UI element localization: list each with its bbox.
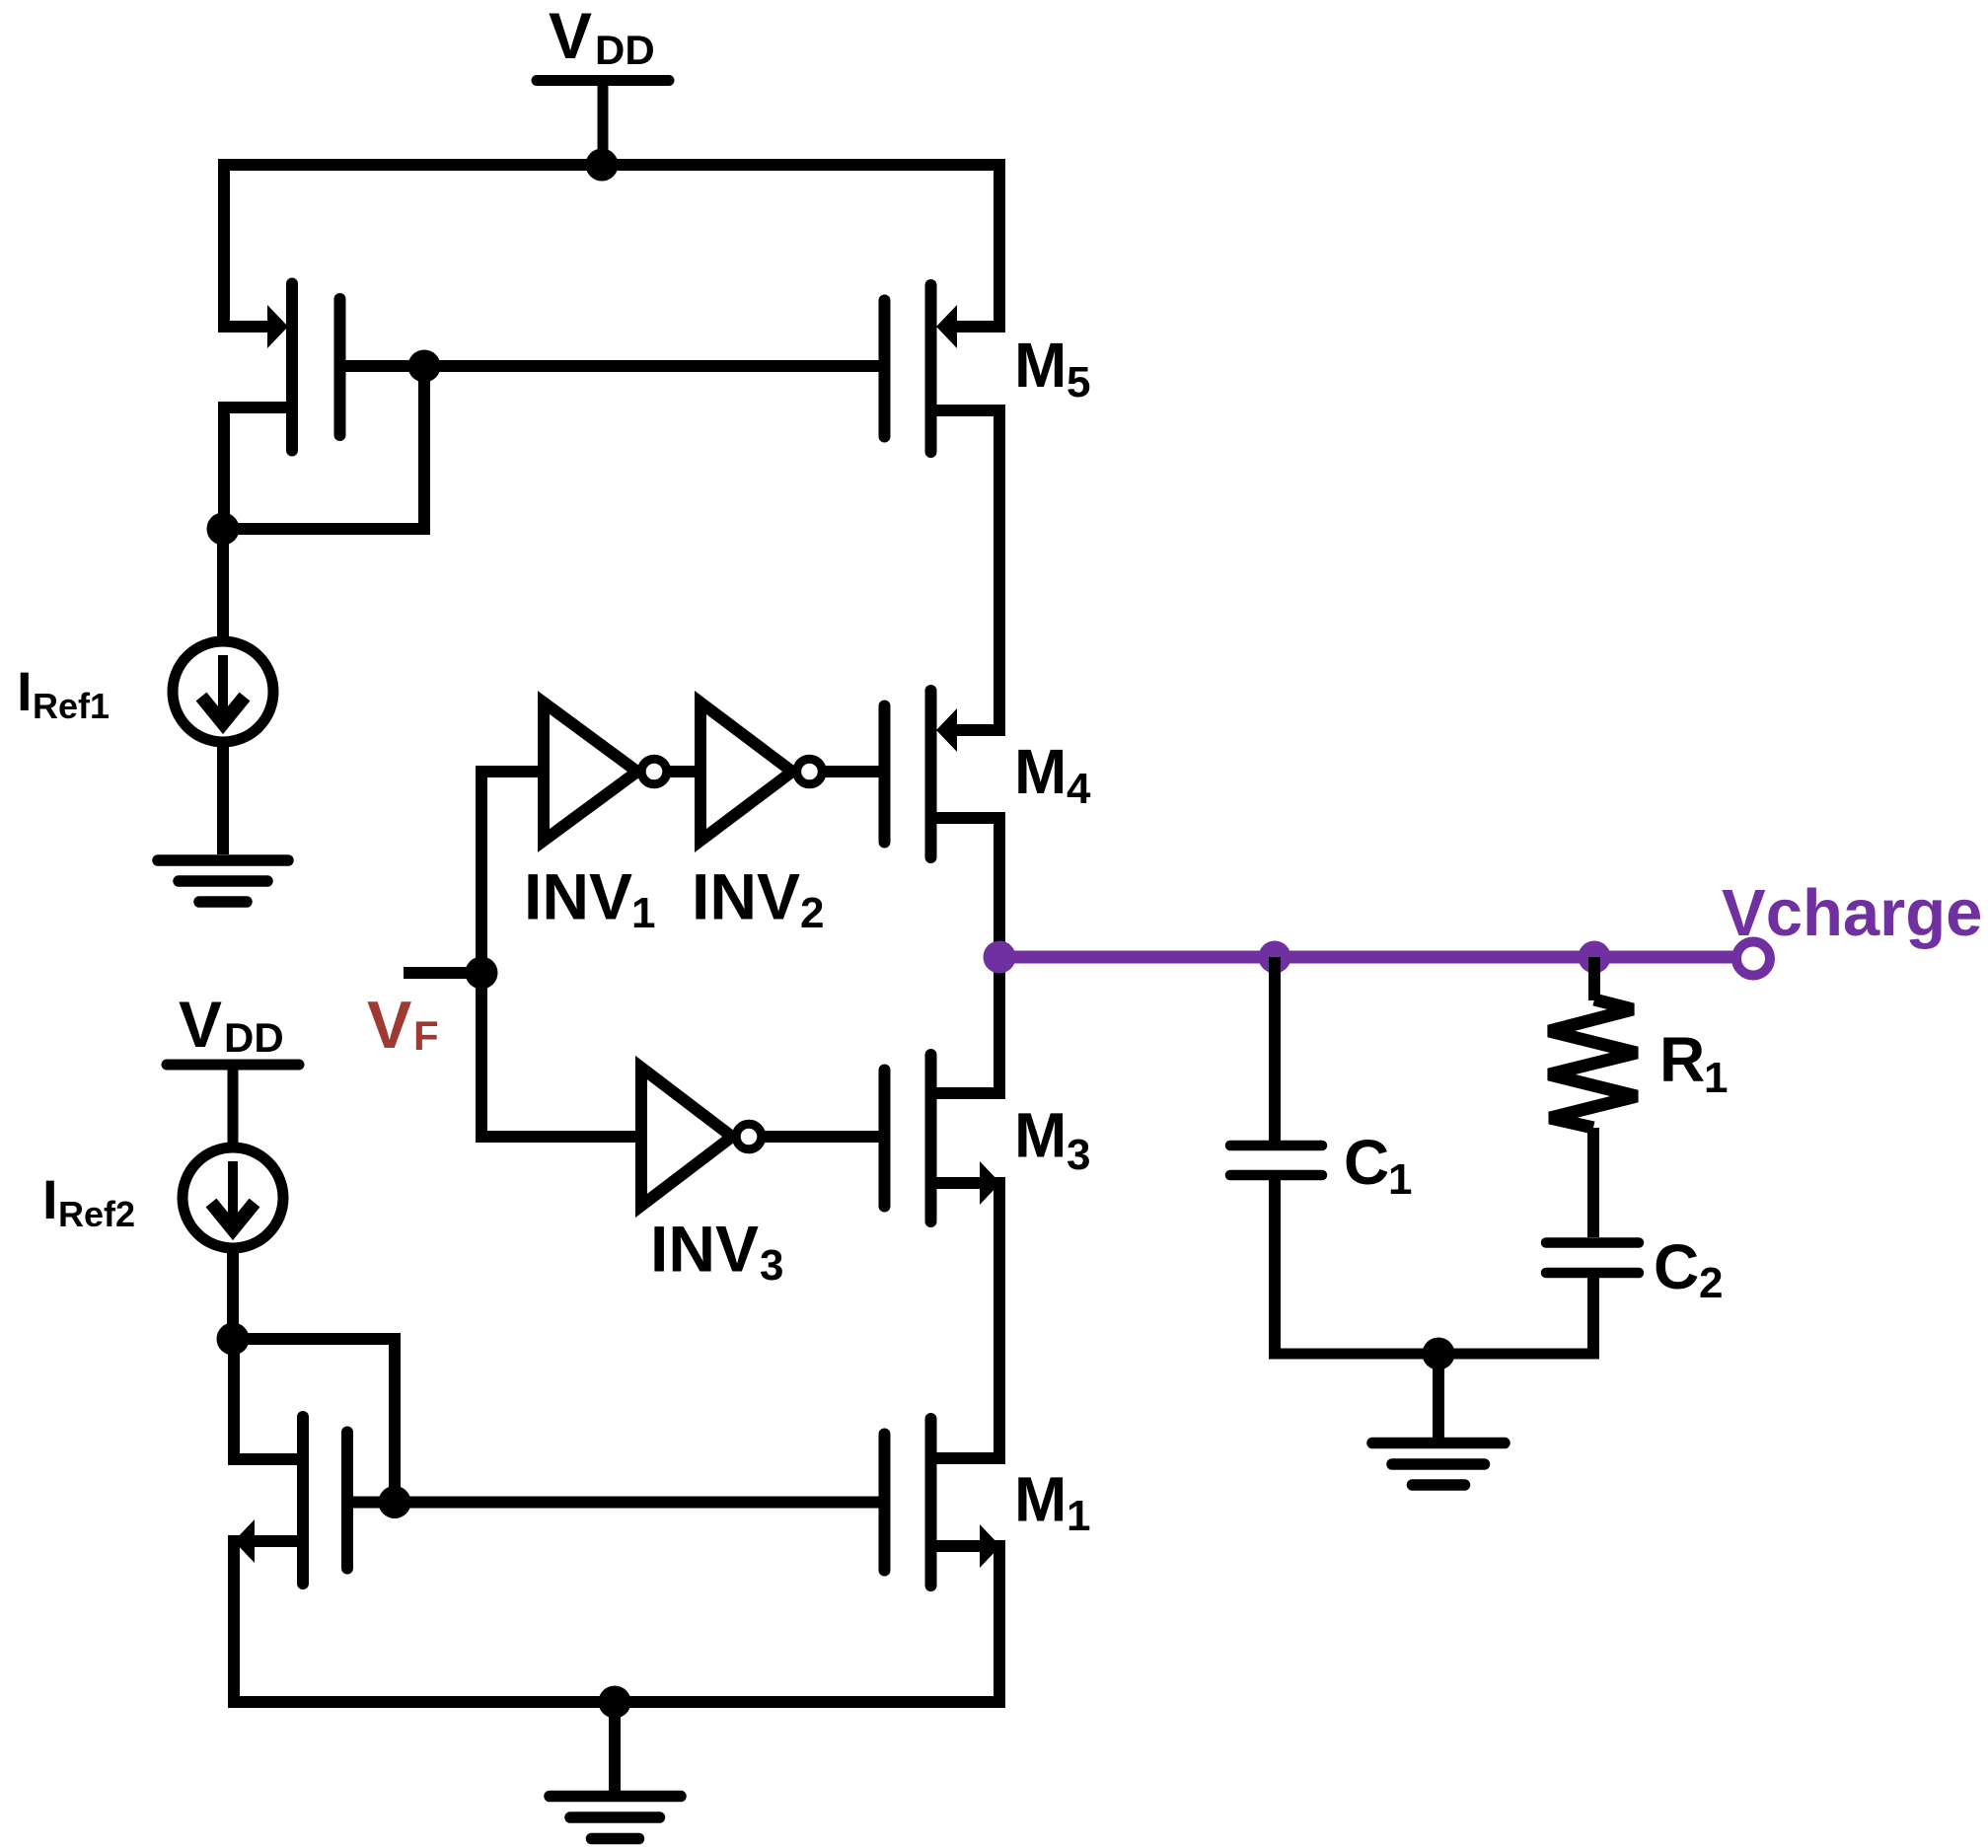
wire INV1 out to INV2 in	[666, 766, 700, 777]
wire VF stub	[404, 967, 481, 979]
wire gate of left PMOS to M5 gate	[345, 360, 879, 372]
wire IRef2 to node	[227, 1248, 239, 1339]
inverter INV3	[641, 1068, 732, 1206]
svg-text:1: 1	[1388, 1155, 1412, 1204]
wire C1/C2 bottom	[1269, 1349, 1599, 1360]
svg-text:4: 4	[1067, 765, 1091, 813]
node gate tie (bottom)	[379, 1486, 411, 1518]
svg-text:1: 1	[1067, 1492, 1090, 1540]
svg-text:Vcharge: Vcharge	[1722, 876, 1982, 950]
svg-text:C: C	[1344, 1127, 1389, 1198]
wire rail to ground	[609, 1702, 621, 1791]
ground (main, bottom center)	[550, 1797, 681, 1839]
label VDD (lower-left)	[179, 988, 284, 1061]
svg-text:V: V	[367, 988, 411, 1063]
svg-text:F: F	[413, 1012, 439, 1059]
label M5	[1014, 330, 1090, 407]
transistor M4 (PMOS)	[885, 691, 931, 857]
label VDD (top)	[549, 0, 655, 73]
svg-text:5: 5	[1067, 358, 1090, 407]
wire INV2 out to M4 gate	[822, 766, 879, 777]
label M3	[1014, 1100, 1090, 1180]
wire Vcharge net (purple)	[999, 951, 1736, 964]
label VF	[367, 988, 439, 1063]
svg-text:3: 3	[760, 1241, 783, 1290]
svg-text:C: C	[1654, 1231, 1699, 1302]
label M1	[1014, 1464, 1090, 1541]
transistor M1 (NMOS)	[885, 1419, 931, 1586]
svg-text:2: 2	[1699, 1259, 1723, 1307]
node top rail junction	[586, 149, 619, 182]
capacitor C1	[1269, 957, 1281, 1354]
svg-text:V: V	[179, 988, 222, 1061]
current source IRef1	[173, 641, 273, 742]
resistor R1	[1549, 957, 1637, 1237]
inverter INV1	[544, 702, 637, 841]
wire node to IRef1	[217, 529, 229, 643]
svg-text:I: I	[42, 1168, 58, 1230]
svg-text:Ref1: Ref1	[33, 686, 110, 726]
label INV2	[692, 860, 824, 938]
inverter INV2	[700, 702, 792, 841]
svg-text:M: M	[1014, 330, 1067, 401]
node gate tie	[408, 350, 441, 383]
svg-text:INV: INV	[692, 860, 800, 933]
node ground rail	[599, 1686, 631, 1719]
power VDD (lower-left) symbol	[167, 1065, 299, 1149]
wire IRef1 to ground	[217, 742, 229, 854]
wire diode tie (gate to drain)	[223, 366, 424, 529]
node Vcharge at R1	[1579, 941, 1611, 974]
label INV3	[650, 1213, 783, 1291]
svg-text:M: M	[1014, 1464, 1067, 1535]
label C2	[1654, 1231, 1723, 1307]
svg-text:R: R	[1659, 1024, 1705, 1095]
label C1	[1344, 1127, 1412, 1204]
svg-text:DD: DD	[595, 27, 655, 73]
transistor M5 (PMOS)	[885, 285, 931, 452]
wire bottom ground rail	[234, 1535, 999, 1702]
wire INV3 out to M3 gate	[762, 1131, 879, 1143]
label IRef1	[17, 660, 110, 726]
node RC ground	[1423, 1338, 1455, 1370]
wire VF to inverter inputs	[481, 772, 641, 1137]
transistor PMOS mirror (top-left, unlabeled)	[292, 284, 340, 451]
current source IRef2	[183, 1147, 283, 1248]
svg-text:Ref2: Ref2	[58, 1194, 135, 1234]
svg-text:2: 2	[800, 889, 824, 937]
svg-text:3: 3	[1067, 1131, 1090, 1179]
node Vcharge at C1	[1259, 941, 1291, 974]
label IRef2	[42, 1168, 135, 1234]
node drain/IRef1	[207, 513, 240, 546]
svg-text:I: I	[17, 660, 33, 722]
power VDD (top) symbol	[537, 81, 669, 166]
label M4	[1014, 736, 1091, 813]
ground (under IRef1)	[158, 860, 288, 902]
svg-text:INV: INV	[650, 1213, 759, 1286]
wire top VDD rail	[224, 165, 999, 333]
svg-text:1: 1	[1704, 1054, 1728, 1102]
wire gate of mirror to M1 gate	[353, 1497, 879, 1509]
node Vcharge at M column	[984, 941, 1016, 974]
wire diode tie IRef2 node to gate	[233, 1339, 395, 1503]
label R1	[1659, 1024, 1728, 1102]
capacitor C2	[1546, 1243, 1639, 1274]
transistor NMOS mirror (bottom-left, unlabeled)	[303, 1417, 347, 1584]
terminal Vcharge (open circle)	[1736, 942, 1770, 976]
wire node to RC ground	[1433, 1354, 1444, 1438]
svg-text:DD: DD	[224, 1014, 284, 1061]
node IRef2 output	[217, 1323, 250, 1356]
ground (under C1/C2)	[1372, 1443, 1505, 1486]
label INV1	[524, 860, 655, 938]
node VF	[466, 957, 498, 990]
svg-text:1: 1	[631, 889, 655, 937]
svg-text:M: M	[1014, 736, 1067, 807]
svg-text:M: M	[1014, 1100, 1067, 1171]
svg-text:V: V	[549, 0, 592, 72]
svg-text:INV: INV	[524, 860, 632, 933]
transistor M3 (NMOS)	[885, 1055, 931, 1221]
